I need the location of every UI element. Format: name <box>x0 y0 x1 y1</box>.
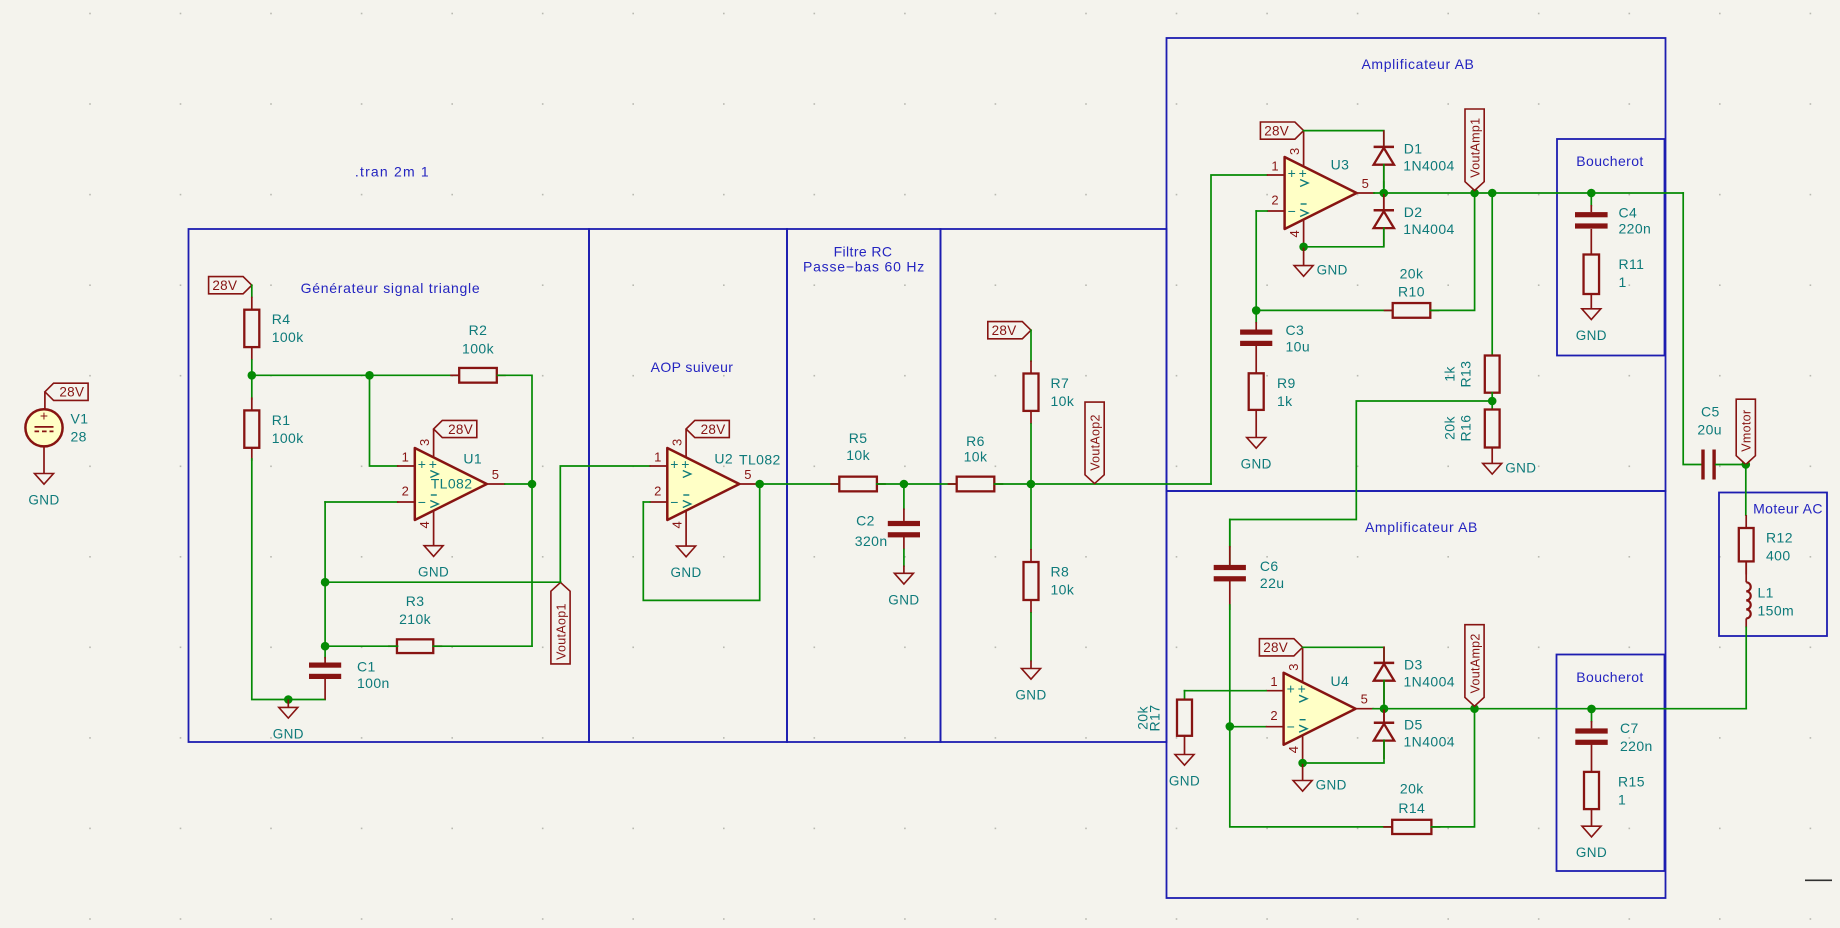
wire R3 right segment <box>433 645 532 647</box>
wire divider node to R8 <box>1030 484 1032 549</box>
capacitor C4 220n <box>1575 205 1651 237</box>
wire output down to R13 <box>1491 193 1493 356</box>
svg-text:20k: 20k <box>1400 266 1424 282</box>
wire to U4 pin 2 <box>1230 726 1266 728</box>
box: AOP suiveur <box>589 229 787 742</box>
svg-text:C1: C1 <box>357 658 376 674</box>
junction VoutAop1 tap <box>321 578 330 587</box>
wire U3 pin 2 stub <box>1256 210 1267 212</box>
svg-text:GND: GND <box>1505 460 1536 475</box>
svg-text:R13: R13 <box>1458 361 1474 388</box>
power flag 28V at R4 <box>209 277 252 294</box>
junction D3/D5 at output <box>1380 704 1389 713</box>
svg-text:R1: R1 <box>272 412 291 428</box>
svg-text:D3: D3 <box>1404 656 1423 672</box>
wire divider net down to C6 <box>1229 520 1231 547</box>
capacitor C2 pin bottom <box>903 536 905 550</box>
sheet border tick <box>1805 879 1832 881</box>
svg-text:GND: GND <box>418 565 449 580</box>
svg-text:20u: 20u <box>1697 422 1722 438</box>
svg-text:D2: D2 <box>1404 204 1423 220</box>
junction node A to U1 pin1 branch <box>365 371 374 380</box>
wire R17 to ground <box>1184 736 1186 755</box>
power flag 28V at U4 pin 3 <box>1259 639 1302 656</box>
power flag 28V at U3 pin 3 <box>1260 122 1303 139</box>
wire R15 to ground <box>1591 809 1593 826</box>
wire R9 to ground <box>1255 410 1257 438</box>
junction node A at R4/R1 <box>248 371 257 380</box>
wire VoutAop1 horizontal <box>325 581 561 583</box>
wire up to U3 pin 1 <box>1211 175 1267 484</box>
svg-text:28V: 28V <box>1264 123 1289 138</box>
wire VoutAop1 node up to U2 pin 1 <box>560 466 650 582</box>
svg-text:GND: GND <box>1576 328 1607 343</box>
svg-text:Boucherot: Boucherot <box>1576 669 1643 685</box>
wire R6 to amplifier input <box>995 483 1212 485</box>
capacitor C1 pin bottom <box>324 679 326 700</box>
junction D1/D2 at output <box>1380 189 1389 198</box>
wire R8 to ground <box>1030 613 1032 661</box>
op-amp U2 pin 4 wire <box>685 510 687 546</box>
svg-text:100k: 100k <box>272 430 305 446</box>
resistor R9 1k <box>1249 373 1296 410</box>
svg-text:GND: GND <box>1169 774 1200 789</box>
power flag 28V at U1 pin 3 <box>434 420 477 437</box>
svg-text:VoutAop1: VoutAop1 <box>554 603 568 660</box>
wire 28V rail to D1 <box>1304 131 1384 148</box>
wire U4 pin 1 to R17 <box>1185 690 1267 692</box>
svg-text:28V: 28V <box>1263 640 1288 655</box>
wire D2 top <box>1383 193 1385 210</box>
junction C2 tap <box>900 480 909 489</box>
wire R14 to output <box>1432 709 1475 827</box>
capacitor C2 pin top <box>903 509 905 521</box>
wire R10 to output <box>1431 193 1475 310</box>
svg-text:GND: GND <box>670 565 701 580</box>
ground at U2 pin 4 <box>670 546 701 580</box>
junction C6/R14 node <box>1226 722 1235 731</box>
global label VoutAop2 <box>1085 402 1104 484</box>
capacitor C4 pin top <box>1590 205 1592 212</box>
svg-text:R7: R7 <box>1051 375 1070 391</box>
svg-text:28V: 28V <box>701 422 726 437</box>
diode D1 1N4004 <box>1374 130 1455 187</box>
svg-text:1: 1 <box>1271 159 1278 174</box>
svg-text:R2: R2 <box>469 322 488 338</box>
resistor R3 210k <box>388 593 442 653</box>
global label Vmotor <box>1736 399 1755 464</box>
wire V1 minus pin <box>43 446 45 473</box>
svg-text:1N4004: 1N4004 <box>1404 733 1455 749</box>
svg-text:C6: C6 <box>1260 558 1279 574</box>
ground at U4 pin 4 <box>1293 763 1347 793</box>
svg-text:R6: R6 <box>966 433 985 449</box>
svg-text:R5: R5 <box>849 430 868 446</box>
capacitor C7 pin bottom <box>1591 743 1593 772</box>
capacitor C2 ground lead <box>903 566 905 574</box>
wire 28V flag to R4 <box>251 285 253 297</box>
op-amp U4 pin 4 wire <box>1302 735 1304 763</box>
svg-text:4: 4 <box>1286 746 1301 753</box>
svg-text:U3: U3 <box>1331 157 1350 173</box>
wire C2 to ground <box>903 550 905 567</box>
capacitor C3 10u <box>1240 322 1310 355</box>
svg-text:R9: R9 <box>1277 375 1296 391</box>
global label VoutAmp2 <box>1465 625 1484 707</box>
op-amp U2 TL082 <box>650 439 781 529</box>
svg-text:2: 2 <box>402 484 409 499</box>
ground at R8 <box>1015 661 1046 703</box>
ground at U3 pin 4 <box>1294 247 1348 278</box>
resistor R7 10k <box>1024 361 1075 424</box>
power flag 28V at U2 pin 3 <box>686 420 729 437</box>
svg-text:−: − <box>670 494 678 510</box>
svg-text:GND: GND <box>273 726 304 741</box>
op-amp U2 pin 3 wire <box>685 429 687 458</box>
svg-text:5: 5 <box>1362 176 1369 191</box>
capacitor C3 pin bottom <box>1255 345 1257 373</box>
wire node to C1 <box>324 646 326 657</box>
ground at R11 <box>1576 309 1607 343</box>
wire R3 left to C1 node <box>325 645 397 647</box>
junction C7 tap <box>1587 705 1596 714</box>
svg-text:−: − <box>1288 203 1296 219</box>
wire D3 to output rail <box>1383 680 1385 708</box>
wire R5 to R6 <box>877 483 957 485</box>
wire D2 to ground node <box>1304 228 1384 247</box>
svg-text:100n: 100n <box>357 675 390 691</box>
junction C3/R10 feedback node <box>1252 306 1261 315</box>
wire 28V rail to D3 <box>1303 647 1384 663</box>
ground at R17 <box>1169 755 1200 789</box>
svg-text:AOP suiveur: AOP suiveur <box>651 359 734 375</box>
svg-text:+: + <box>429 456 437 472</box>
svg-text:R11: R11 <box>1619 256 1645 272</box>
resistor R16 20k <box>1485 410 1500 448</box>
resistor R5 10k <box>830 430 886 491</box>
svg-text:R12: R12 <box>1766 530 1793 546</box>
capacitor C6 pin top <box>1229 546 1231 565</box>
svg-text:GND: GND <box>28 493 59 508</box>
svg-text:5: 5 <box>492 467 499 482</box>
capacitor C6 pin bottom <box>1229 580 1231 610</box>
wire C6 to U4 pin 2 node <box>1229 605 1231 727</box>
svg-text:C3: C3 <box>1286 322 1305 338</box>
svg-text:C4: C4 <box>1619 205 1638 221</box>
svg-text:1k: 1k <box>1277 393 1293 409</box>
svg-text:4: 4 <box>1287 230 1302 237</box>
svg-text:100k: 100k <box>272 329 305 345</box>
wire R11 to ground <box>1590 294 1592 309</box>
svg-text:GND: GND <box>1015 688 1046 703</box>
svg-text:28V: 28V <box>59 385 84 400</box>
wire C5 to Vmotor <box>1716 464 1746 466</box>
capacitor C4 pin bottom <box>1590 229 1592 255</box>
op-amp U4 TL082 <box>1266 663 1374 753</box>
svg-text:Boucherot: Boucherot <box>1576 153 1643 169</box>
svg-text:3: 3 <box>1287 148 1302 155</box>
svg-text:4: 4 <box>670 521 685 528</box>
svg-text:1: 1 <box>654 450 661 465</box>
svg-text:U4: U4 <box>1331 673 1350 689</box>
svg-text:V1: V1 <box>71 411 89 427</box>
svg-text:3: 3 <box>670 439 685 446</box>
capacitor C1 100n <box>309 658 390 691</box>
svg-text:GND: GND <box>1316 778 1347 793</box>
svg-text:220n: 220n <box>1619 221 1652 237</box>
wire node A to R1 <box>251 375 253 399</box>
junction ground rail <box>284 695 293 704</box>
voltage source V1 (28V DC) <box>25 408 88 447</box>
wire rail to C7 <box>1591 709 1593 722</box>
power flag 28V at R7 <box>988 322 1031 339</box>
svg-text:R10: R10 <box>1398 284 1425 300</box>
junction U1 output <box>528 480 537 489</box>
svg-text:R15: R15 <box>1618 773 1645 789</box>
wire U1 output to junction <box>505 483 532 485</box>
svg-text:28V: 28V <box>992 323 1017 338</box>
junction VoutAmp1 tap <box>1470 189 1479 198</box>
svg-text:+: + <box>681 456 689 472</box>
wire junction to C2 <box>903 484 905 509</box>
wire output to C5 <box>1683 193 1701 465</box>
svg-text:U1: U1 <box>463 451 482 467</box>
wire node A down to U1 pin 1 <box>370 375 398 466</box>
resistor R6 10k <box>948 433 1004 491</box>
junction R13 tap <box>1488 189 1497 198</box>
global label VoutAmp1 <box>1465 109 1484 191</box>
svg-text:.tran 2m 1: .tran 2m 1 <box>355 163 430 179</box>
svg-text:C5: C5 <box>1701 404 1720 420</box>
box: Amplificateur AB (bottom) <box>1167 491 1666 898</box>
wire to U1 pin 2 <box>325 501 397 503</box>
svg-text:10k: 10k <box>964 449 988 465</box>
svg-text:R3: R3 <box>406 593 425 609</box>
wire node A to R2 left <box>252 374 459 376</box>
svg-text:U2: U2 <box>714 451 733 467</box>
capacitor C1 pin top <box>324 657 326 663</box>
svg-text:1: 1 <box>1619 274 1627 290</box>
wire D5 to ground node <box>1303 740 1384 763</box>
global label VoutAop1 <box>551 582 570 664</box>
svg-text:+: + <box>1288 165 1296 181</box>
wire divider to C6 <box>1230 401 1492 565</box>
junction Vmotor node <box>1742 460 1751 469</box>
diode D5 1N4004 <box>1374 709 1455 759</box>
diode D3 1N4004 <box>1374 646 1455 703</box>
wire Vmotor down to R12 <box>1745 465 1747 516</box>
svg-text:+: + <box>40 408 48 424</box>
wire R13 to R16 <box>1491 393 1493 410</box>
inductor L1 150m <box>1746 561 1794 627</box>
op-amp U3 pin 3 wire <box>1303 131 1305 167</box>
wire feedback node to C3 <box>1255 310 1257 322</box>
junction R13/R16 divider <box>1488 397 1497 406</box>
capacitor C3 pin top <box>1255 322 1257 330</box>
svg-text:VoutAmp1: VoutAmp1 <box>1468 118 1482 178</box>
resistor R8 10k <box>1024 549 1075 613</box>
wire V1 plus pin <box>44 392 46 410</box>
wire U2 feedback loop <box>643 484 759 600</box>
svg-text:150m: 150m <box>1758 603 1795 619</box>
svg-text:−: − <box>1287 719 1295 735</box>
svg-text:R16: R16 <box>1458 415 1474 442</box>
ground at C1 <box>273 699 304 741</box>
resistor R1 100k <box>244 397 304 460</box>
power flag 28V at V1 <box>45 383 88 400</box>
resistor R15 1 <box>1584 772 1645 809</box>
svg-text:22u: 22u <box>1260 575 1285 591</box>
svg-text:28V: 28V <box>212 278 237 293</box>
box: Moteur AC <box>1719 493 1827 637</box>
svg-text:3: 3 <box>1286 663 1301 670</box>
op-amp U1 pin 4 wire <box>433 510 435 546</box>
wire rail to C4 <box>1590 193 1592 206</box>
svg-text:Vmotor: Vmotor <box>1740 410 1754 452</box>
svg-text:28V: 28V <box>448 422 473 437</box>
capacitor C7 pin top <box>1591 721 1593 728</box>
capacitor C5 20u <box>1697 404 1722 480</box>
resistor R4 100k <box>244 297 304 360</box>
wire feedback to R14 <box>1230 727 1393 827</box>
wire D1 to output rail <box>1383 165 1385 193</box>
svg-text:1N4004: 1N4004 <box>1403 157 1454 173</box>
svg-text:D1: D1 <box>1404 140 1423 156</box>
svg-text:28: 28 <box>71 429 87 445</box>
wire U3 pin2 down to feedback node <box>1255 211 1257 310</box>
svg-text:2: 2 <box>1270 708 1277 723</box>
box: Generateur signal triangle <box>189 229 590 742</box>
wire R4 to node A <box>251 360 253 375</box>
svg-text:C7: C7 <box>1620 720 1639 736</box>
svg-text:TL082: TL082 <box>431 476 473 492</box>
svg-text:GND: GND <box>1576 845 1607 860</box>
svg-text:Amplificateur AB: Amplificateur AB <box>1365 519 1478 535</box>
junction U2 output feedback <box>755 480 764 489</box>
svg-text:TL082: TL082 <box>739 452 781 468</box>
wire R2 right down to R3 right <box>498 375 532 646</box>
wire feedback node to R10 <box>1256 309 1392 311</box>
ground at R16 <box>1483 460 1537 475</box>
svg-text:1: 1 <box>1618 791 1626 807</box>
svg-text:1N4004: 1N4004 <box>1403 221 1454 237</box>
resistor R17 20k <box>1177 700 1192 736</box>
svg-text:1: 1 <box>1270 674 1277 689</box>
capacitor C6 22u <box>1214 558 1285 591</box>
svg-text:R4: R4 <box>272 311 291 327</box>
wire R16 to ground <box>1491 448 1493 464</box>
svg-text:GND: GND <box>1317 263 1348 278</box>
svg-text:5: 5 <box>744 467 751 482</box>
svg-text:10k: 10k <box>846 447 870 463</box>
wire R1 bottom to ground rail <box>252 459 325 700</box>
resistor R14 20k <box>1383 781 1440 835</box>
svg-text:220n: 220n <box>1620 738 1653 754</box>
svg-text:Filtre RC: Filtre RC <box>834 244 893 260</box>
svg-text:+: + <box>1298 681 1306 697</box>
svg-text:GND: GND <box>888 592 919 607</box>
svg-text:5: 5 <box>1361 692 1368 707</box>
ground at C2 <box>888 573 919 607</box>
op-amp U1 TL082 <box>397 439 505 529</box>
junction U4 pin4/D5 ground node <box>1298 759 1307 768</box>
svg-text:1N4004: 1N4004 <box>1404 673 1455 689</box>
resistor R11 1 <box>1584 255 1645 295</box>
wire D1 bottom <box>1383 182 1385 193</box>
svg-text:C2: C2 <box>856 512 875 528</box>
svg-text:GND: GND <box>1241 457 1272 472</box>
svg-text:+: + <box>1287 681 1295 697</box>
capacitor C7 220n <box>1575 720 1652 754</box>
junction U3 pin4/D2 ground node <box>1299 243 1308 252</box>
box: Boucherot (top) <box>1557 139 1665 356</box>
capacitor C2 320n <box>888 521 920 538</box>
wire U2 pin 2 stub <box>643 501 650 503</box>
svg-text:VoutAop2: VoutAop2 <box>1088 414 1102 471</box>
svg-text:1k: 1k <box>1442 366 1458 382</box>
wire 28V to R7 <box>1030 330 1032 361</box>
svg-text:20k: 20k <box>1400 781 1424 797</box>
svg-text:20k: 20k <box>1442 416 1458 440</box>
resistor R10 20k <box>1384 266 1440 318</box>
svg-text:Passe−bas 60 Hz: Passe−bas 60 Hz <box>803 259 925 275</box>
op-amp U4 pin 3 wire <box>1302 647 1304 683</box>
box: Boucherot (bottom) <box>1557 655 1665 872</box>
diode D2 1N4004 <box>1374 197 1455 247</box>
svg-text:D5: D5 <box>1404 716 1423 732</box>
svg-text:Moteur AC: Moteur AC <box>1753 501 1823 517</box>
svg-text:−: − <box>418 494 426 510</box>
resistor R2 100k <box>450 322 506 383</box>
box: Amplificateur AB (top) <box>1167 38 1666 491</box>
wire R7 to divider node <box>1030 424 1032 484</box>
svg-text:4: 4 <box>417 521 432 528</box>
ground at U1 pin 4 <box>418 546 449 580</box>
svg-text:R14: R14 <box>1398 800 1425 816</box>
svg-text:210k: 210k <box>399 611 432 627</box>
wire U1 pin2 node vertical <box>324 502 326 646</box>
svg-text:400: 400 <box>1766 548 1791 564</box>
box: bias network <box>941 229 1167 742</box>
resistor R13 1k <box>1485 356 1500 393</box>
box: Filtre RC <box>787 229 941 742</box>
wire U4 output rail <box>1373 708 1746 710</box>
svg-text:10k: 10k <box>1051 393 1075 409</box>
wire L1 to output rail <box>1745 627 1747 708</box>
op-amp U1 pin 3 wire <box>433 429 435 458</box>
junction VoutAmp2 tap <box>1470 704 1479 713</box>
junction C1/R3 node <box>321 642 330 651</box>
svg-text:1: 1 <box>402 450 409 465</box>
svg-text:2: 2 <box>1271 193 1278 208</box>
svg-text:VoutAmp2: VoutAmp2 <box>1468 633 1482 693</box>
svg-text:R8: R8 <box>1051 564 1070 580</box>
wire down to R17 <box>1184 691 1186 700</box>
svg-text:Amplificateur AB: Amplificateur AB <box>1361 56 1474 72</box>
svg-text:100k: 100k <box>462 341 495 357</box>
svg-text:L1: L1 <box>1758 585 1774 601</box>
svg-text:+: + <box>1299 165 1307 181</box>
svg-text:R17: R17 <box>1147 705 1163 732</box>
ground at R15 <box>1576 826 1607 860</box>
svg-text:3: 3 <box>417 439 432 446</box>
junction R7/R8 divider <box>1027 480 1036 489</box>
wire U3 output rail <box>1374 192 1683 194</box>
svg-text:+: + <box>670 456 678 472</box>
svg-text:2: 2 <box>654 484 661 499</box>
ground at V1 <box>28 474 59 508</box>
op-amp U3 pin 4 wire <box>1303 219 1305 247</box>
